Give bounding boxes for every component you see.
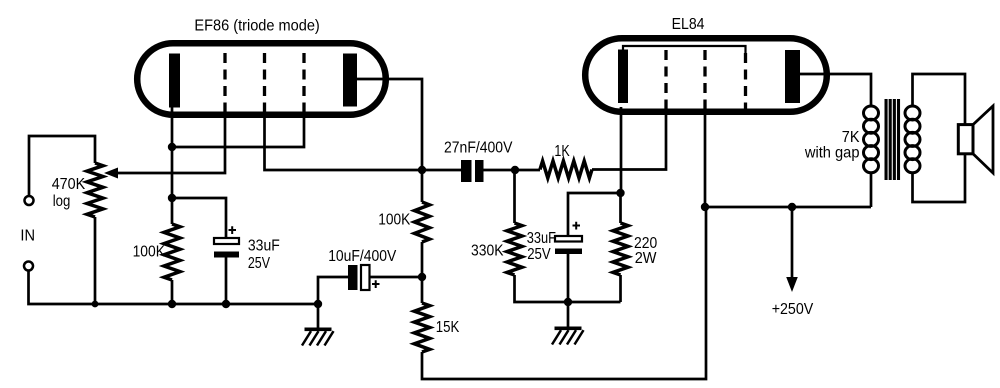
capacitor C1 33uF/25V bottom plate	[214, 252, 239, 258]
EF86 grid g2 (dashed)	[263, 53, 266, 113]
wire: ground stem	[567, 302, 570, 327]
resistor 330K	[507, 223, 522, 275]
wire: C2 left plate to ground	[318, 277, 348, 328]
capacitor C2 plus sign	[372, 280, 380, 288]
pentode V2 EL84 envelope	[585, 38, 827, 112]
wire: node to 15K top	[421, 277, 424, 303]
EF86 anode bar	[343, 54, 357, 107]
svg-text:+250V: +250V	[772, 301, 814, 318]
pot wiper arrow wire to EF86 g1	[115, 113, 225, 173]
pentode V1 EF86 envelope	[137, 43, 386, 115]
input terminal top	[25, 196, 34, 205]
wire: C3 to 330K node	[484, 169, 541, 172]
EF86 cathode bar	[169, 54, 180, 108]
capacitor C1 33uF/25V plus sign	[229, 226, 237, 234]
svg-text:10uF/400V: 10uF/400V	[328, 248, 396, 265]
EL84 cathode bar	[618, 50, 628, 104]
node: ground stem on cathode rail	[564, 298, 572, 306]
resistor 100K (EF86 cathode)	[164, 224, 180, 280]
wire: C2 right plate to node	[370, 276, 423, 279]
wire: 1K to EL84 g1	[592, 113, 666, 170]
node: 100K/15K/10uF junction	[418, 273, 426, 281]
svg-text:1K: 1K	[554, 143, 570, 160]
svg-text:330K: 330K	[471, 243, 504, 260]
EL84 internal g3-cathode strap	[623, 46, 746, 53]
speaker driver body	[958, 125, 973, 154]
wire: secondary bottom to speaker	[913, 154, 966, 202]
svg-text:log: log	[53, 193, 71, 210]
node: +250V tap	[788, 203, 796, 211]
resistor 1K body	[540, 161, 592, 178]
wire: HT rail to transformer primary	[705, 206, 871, 209]
node: EL84 cathode junction	[616, 189, 624, 197]
capacitor C3 left plate	[461, 160, 472, 182]
wire: cathode junction to 33uF cap	[172, 198, 226, 238]
node: cathode / bypass cap junction	[168, 194, 176, 202]
svg-text:33uF: 33uF	[527, 230, 556, 247]
wire: C1 bottom to rail	[225, 258, 228, 305]
EL84 grid g2 (dashed)	[703, 50, 706, 113]
node: 100K bottom on rail	[168, 300, 176, 308]
OPT primary winding 7K	[864, 106, 879, 120]
svg-text:IN: IN	[20, 228, 35, 245]
resistor 220 2W	[613, 223, 628, 275]
wire: cathode junction to 220 top	[619, 193, 622, 223]
wire: secondary top to speaker	[913, 74, 966, 125]
node: cathode / g3 strap junction	[168, 143, 176, 151]
node: C3 / 330K / 1K junction	[511, 166, 519, 174]
node: pot bottom on rail	[92, 301, 99, 308]
EL84 grid g1 (dashed)	[664, 50, 667, 113]
speaker cone	[973, 106, 993, 173]
EF86 grid g1 (dashed)	[223, 53, 226, 113]
svg-text:7K: 7K	[842, 129, 860, 146]
capacitor C4 bottom plate	[555, 249, 582, 255]
wire: node to 100K top	[421, 170, 424, 202]
OPT secondary winding	[905, 106, 920, 120]
+250V feed arrow	[791, 207, 794, 279]
wire: bottom input to ground rail	[29, 271, 319, 305]
svg-text:with gap: with gap	[804, 145, 860, 162]
svg-text:33uF: 33uF	[248, 238, 280, 255]
capacitor C3 right plate	[475, 160, 484, 182]
ground symbol (EL84 cathode)	[555, 327, 582, 331]
capacitor C2 right plate	[361, 265, 370, 290]
wire: cathode junction to C4	[568, 193, 621, 236]
wire: EL84 anode to OPT primary	[800, 74, 871, 106]
capacitor C4 top plate	[555, 236, 582, 242]
node: rail meets ground stem	[314, 300, 322, 308]
node: anode/g2/coupling junction	[418, 166, 426, 174]
potentiometer 470K log body	[87, 163, 103, 217]
input terminal bottom	[24, 262, 33, 271]
svg-text:2W: 2W	[635, 250, 658, 267]
wire: EF86 g2 strap to anode node (triode mode)	[265, 113, 462, 170]
wire: EL84 cathode down	[620, 107, 623, 193]
capacitor C1 33uF/25V top plate	[214, 238, 239, 244]
capacitor C4 33uF/25V plus sign	[573, 222, 581, 230]
svg-text:27nF/400V: 27nF/400V	[444, 140, 513, 157]
wire: 330K bottom + rail to 220	[515, 275, 621, 302]
wire: EL84 g2 to HT rail	[704, 113, 707, 207]
node: C1 bottom on rail	[222, 300, 230, 308]
wire: 100K bottom to supply node	[421, 242, 424, 277]
pot wiper arrowhead	[104, 168, 118, 179]
EL84 anode bar	[785, 50, 800, 103]
wire: 220 bottom to rail	[619, 275, 622, 302]
node: g2 / HT rail junction	[701, 203, 709, 211]
wire: top input to pot top	[29, 136, 95, 196]
svg-text:25V: 25V	[248, 255, 270, 272]
wire: cathode to g3 strap	[172, 113, 304, 147]
svg-text:EF86 (triode mode): EF86 (triode mode)	[194, 18, 319, 35]
wire: primary bottom to HT rail	[870, 173, 873, 207]
capacitor C2 left plate	[348, 265, 358, 290]
wire: EF86 anode to coupling node	[357, 79, 422, 170]
svg-text:25V: 25V	[527, 246, 551, 263]
wire: EF86 cathode down	[171, 107, 174, 224]
svg-text:100K: 100K	[378, 211, 410, 228]
wire: C4 bottom to rail	[567, 254, 570, 302]
wire: 15K bottom to +250V feed rail	[422, 207, 706, 379]
svg-text:EL84: EL84	[672, 16, 705, 33]
svg-text:100K: 100K	[133, 243, 166, 260]
svg-text:470K: 470K	[52, 176, 86, 193]
svg-text:15K: 15K	[436, 319, 460, 336]
resistor 15K	[414, 303, 429, 352]
resistor 100K (EF86 anode load)	[415, 202, 430, 242]
wire: 100K bottom to rail	[171, 280, 174, 304]
wire: pot bottom to ground rail	[94, 217, 97, 304]
ground symbol (input stage)	[305, 328, 332, 332]
EF86 grid g3 (dashed)	[302, 53, 305, 113]
wire: node to 330K top	[513, 170, 516, 223]
EL84 grid g3 (dashed)	[744, 53, 747, 113]
OPT core laminations	[885, 99, 888, 180]
